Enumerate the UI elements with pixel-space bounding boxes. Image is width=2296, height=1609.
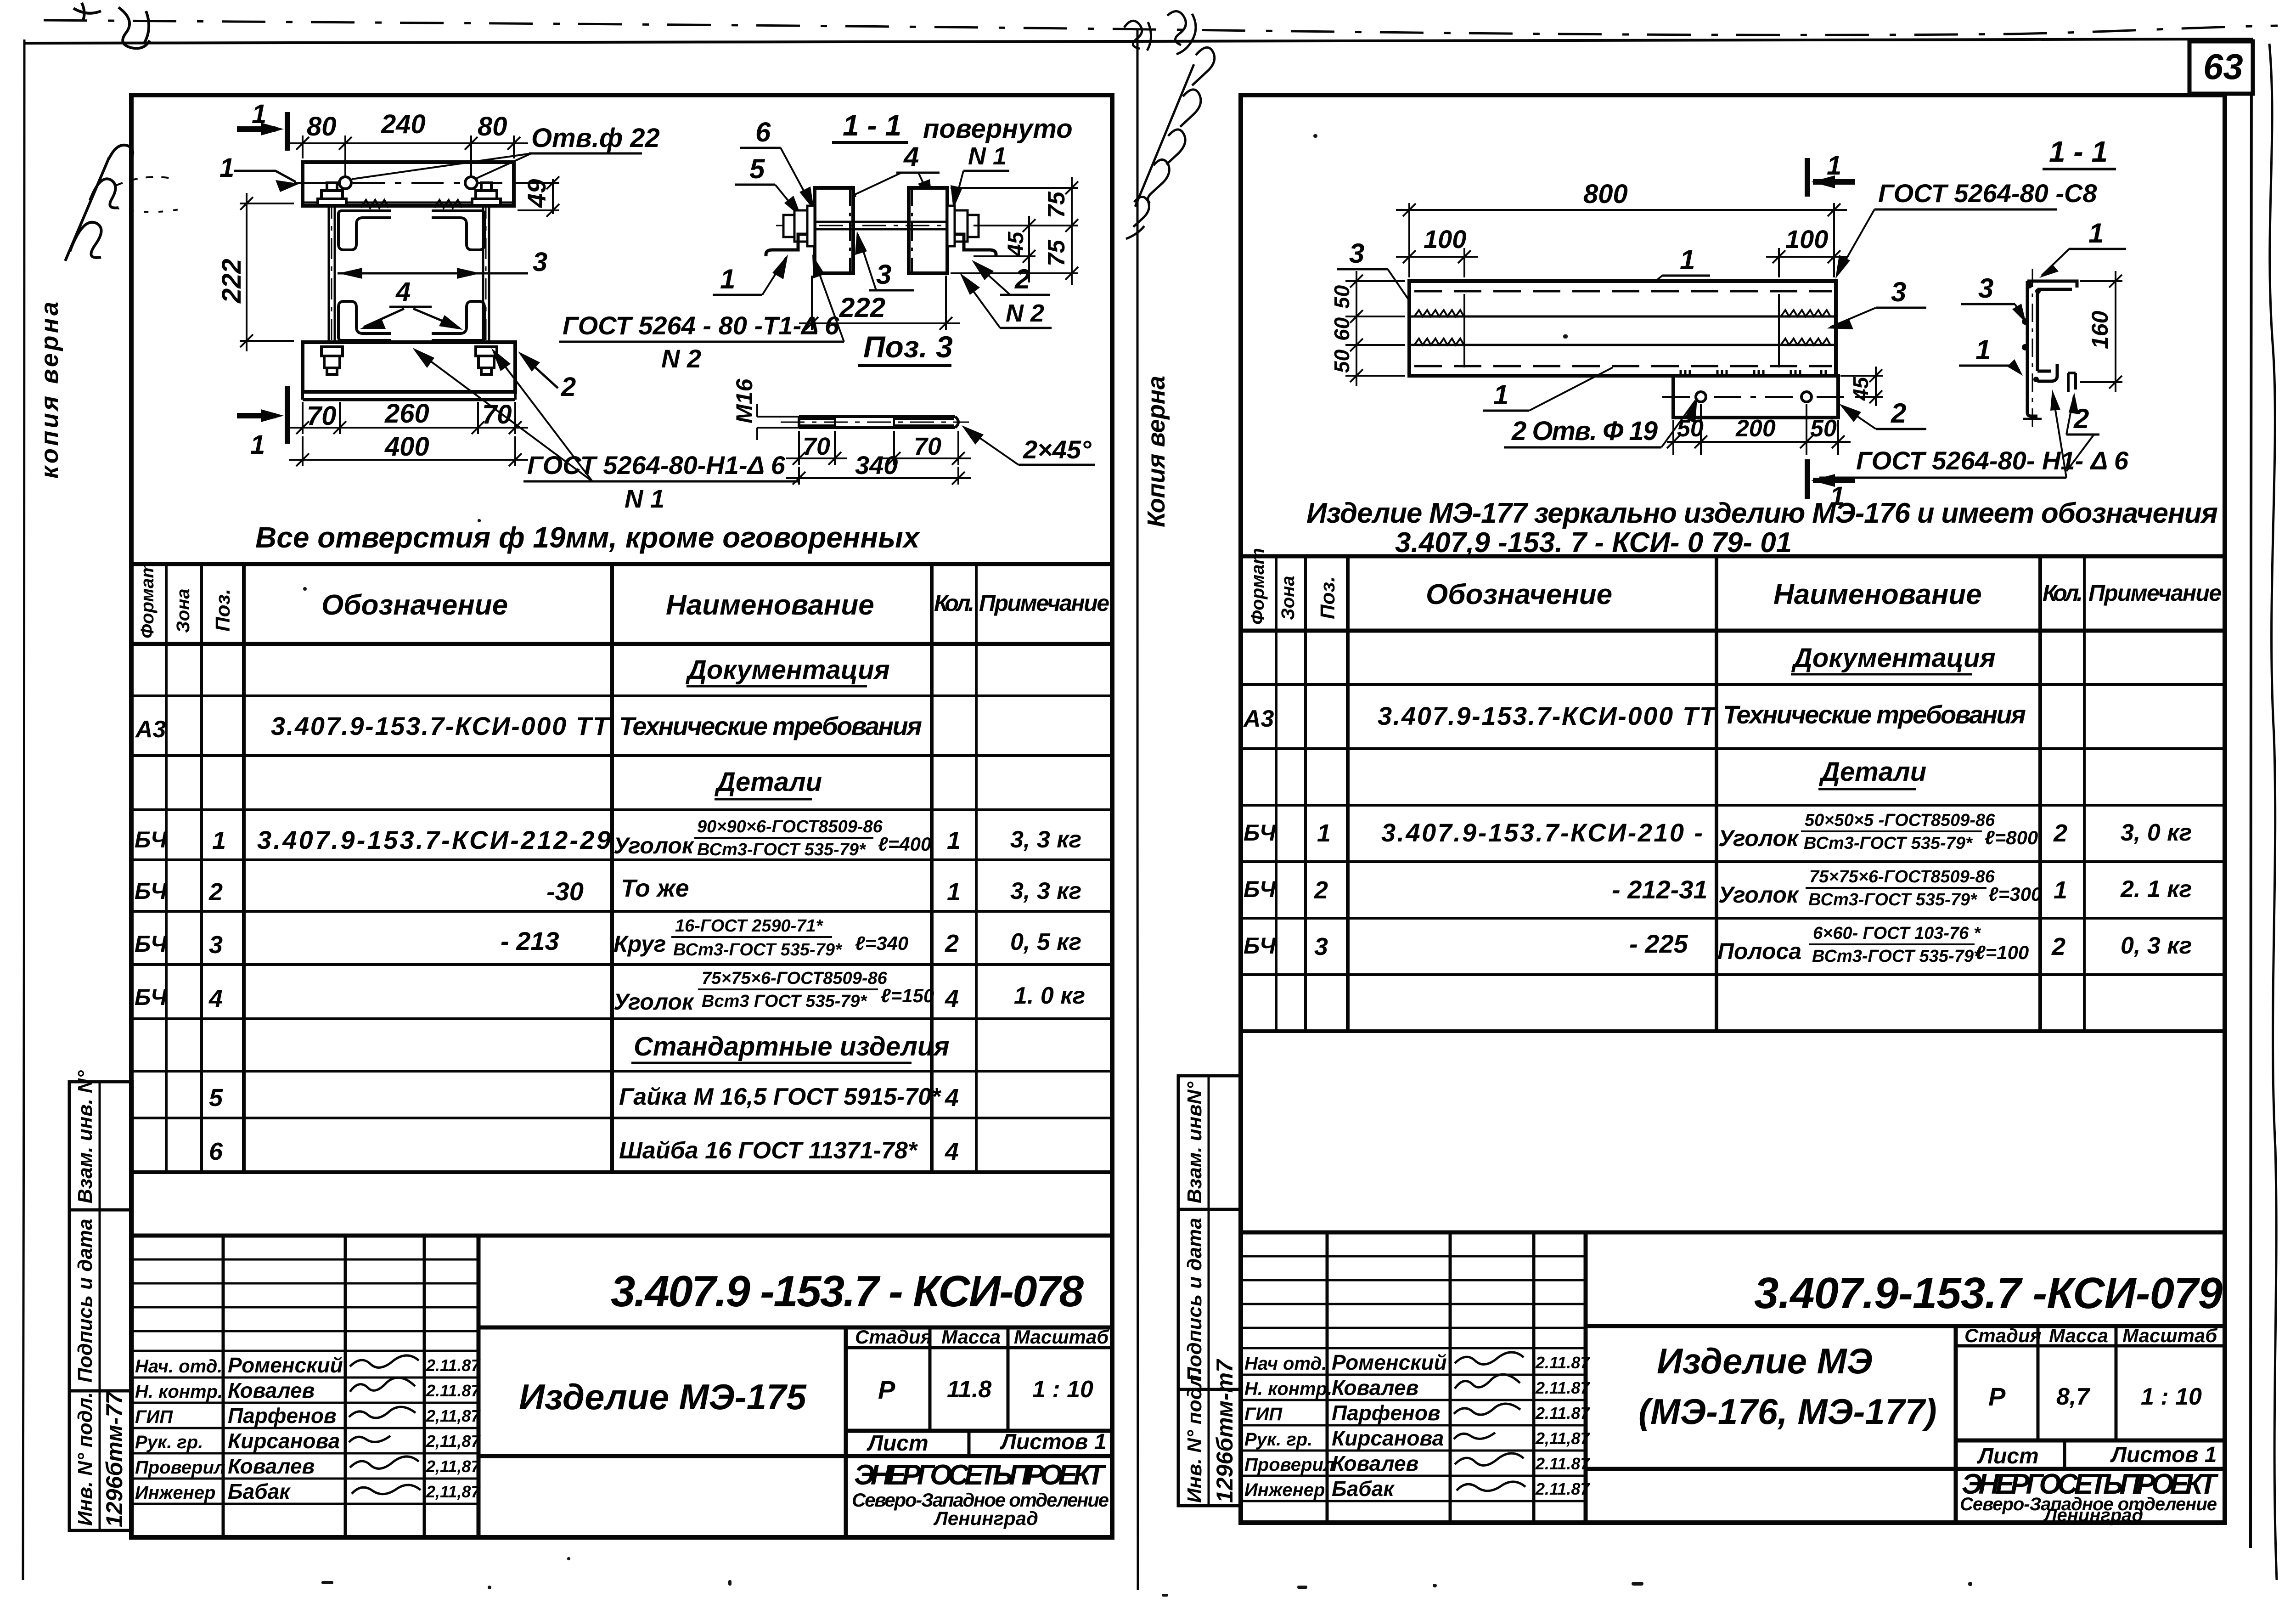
stud axes: [331, 198, 332, 354]
weld zone right: [1779, 294, 1830, 367]
svg-text:3: 3: [1978, 273, 1993, 304]
svg-text:ЭНЕРГОСЕТЬПРОЕКТ: ЭНЕРГОСЕТЬПРОЕКТ: [854, 1459, 1107, 1491]
svg-text:2 Отв. Ф 19: 2 Отв. Ф 19: [1511, 416, 1658, 446]
svg-text:ℓ=100: ℓ=100: [1975, 942, 2029, 963]
lower plate pos.2: [1673, 376, 1838, 418]
signature grid: [222, 1236, 225, 1537]
dim 100 left: [1396, 248, 1478, 277]
svg-text:800: 800: [1583, 179, 1628, 209]
svg-text:Проверил: Проверил: [135, 1457, 225, 1478]
svg-text:ℓ=800: ℓ=800: [1985, 827, 2038, 848]
svg-text:БЧ: БЧ: [135, 878, 168, 904]
svg-text:Изделие МЭ-177 зеркально изд: Изделие МЭ-177 зеркально изделию МЭ-176 …: [1306, 497, 2218, 529]
svg-text:ГОСТ 5264-80 -С8: ГОСТ 5264-80 -С8: [1878, 179, 2097, 208]
svg-text:3.407.9-153.7-КСИ-210 -: 3.407.9-153.7-КСИ-210 -: [1381, 818, 1703, 847]
right margin box Inv.N podl: [1178, 1389, 1241, 1506]
svg-text:3: 3: [533, 247, 547, 277]
svg-text:1296бтм-77: 1296бтм-77: [101, 1391, 127, 1527]
dim 160: [2080, 271, 2122, 392]
svg-text:2,11,87: 2,11,87: [1535, 1429, 1590, 1448]
left margin box Podpis i data: [69, 1210, 132, 1391]
main bar pos.1: [1409, 281, 1836, 376]
svg-text:Масштаб: Масштаб: [2122, 1325, 2217, 1346]
svg-text:Уголок: Уголок: [613, 989, 695, 1015]
svg-text:Ковалев: Ковалев: [228, 1378, 315, 1402]
left signatures column texts: [135, 1353, 481, 1503]
svg-text:3, 0 кг: 3, 0 кг: [2121, 819, 2192, 846]
svg-text:3: 3: [876, 259, 891, 290]
svg-text:100: 100: [1785, 225, 1828, 254]
svg-text:0, 5 кг: 0, 5 кг: [1010, 929, 1081, 955]
svg-text:Масса: Масса: [941, 1326, 1001, 1348]
svg-text:ℓ=150: ℓ=150: [881, 985, 934, 1006]
section marker 1 bottom-left: [237, 386, 287, 444]
right margin box Vzam.inv: [1178, 1076, 1241, 1209]
svg-text:8,7: 8,7: [2056, 1383, 2090, 1410]
svg-text:Изделие МЭ-175: Изделие МЭ-175: [519, 1377, 807, 1417]
svg-text:- 225: - 225: [1629, 929, 1688, 958]
svg-text:Инженер: Инженер: [1244, 1480, 1325, 1500]
left margin box Vzam.inv: [69, 1082, 132, 1210]
svg-text:Примечание: Примечание: [979, 590, 1109, 616]
svg-text:N 1: N 1: [968, 142, 1007, 170]
svg-text:3.407.9-153.7-КСИ-212-29: 3.407.9-153.7-КСИ-212-29: [257, 825, 611, 854]
svg-text:2: 2: [2053, 819, 2067, 847]
svg-text:ГИП: ГИП: [1244, 1404, 1283, 1424]
svg-text:4: 4: [945, 1084, 959, 1112]
dim 70 right: [882, 431, 971, 465]
left table rows: [135, 655, 1085, 1165]
lower plate axis: [1662, 396, 1851, 398]
svg-text:N 2: N 2: [1006, 299, 1044, 327]
svg-text:М16: М16: [732, 378, 757, 423]
svg-text:ВСт3-ГОСТ 535-79*: ВСт3-ГОСТ 535-79*: [1804, 834, 1973, 853]
svg-text:Рук. гр.: Рук. гр.: [1244, 1429, 1312, 1450]
dims 50 60 50 left: [1345, 271, 1405, 386]
sheet number box 63: [2189, 41, 2253, 94]
svg-text:-30: -30: [546, 877, 584, 906]
svg-text:копия верна: копия верна: [36, 302, 63, 479]
bar dashed edge bottom: [1414, 365, 1832, 367]
svg-text:3: 3: [1891, 277, 1906, 307]
dim 340: [786, 467, 971, 485]
svg-text:ВСт3-ГОСТ 535-79*: ВСт3-ГОСТ 535-79*: [1812, 947, 1981, 966]
hole right: [465, 177, 477, 189]
svg-text:75: 75: [1043, 239, 1070, 266]
scan top dash-dot edge line: [44, 20, 2278, 35]
svg-text:1: 1: [219, 153, 234, 183]
svg-text:Ковалев: Ковалев: [1332, 1451, 1418, 1475]
plate axis line: [294, 182, 523, 184]
bolt axis: [781, 422, 969, 423]
svg-text:Бабак: Бабак: [228, 1479, 291, 1503]
dim 800: [1396, 203, 1847, 277]
bar dashed edge top: [1414, 290, 1832, 293]
svg-text:БЧ: БЧ: [1244, 876, 1277, 902]
svg-text:Роменский: Роменский: [228, 1353, 343, 1377]
svg-text:Вст3 ГОСТ 535-79*: Вст3 ГОСТ 535-79*: [702, 992, 868, 1011]
svg-text:Копия верна: Копия верна: [1142, 376, 1170, 527]
svg-text:Наименование: Наименование: [666, 589, 874, 621]
svg-text:Нач. отд.: Нач. отд.: [135, 1356, 222, 1377]
right block pos.4: [909, 188, 947, 273]
svg-text:ГОСТ 5264 - 80 -Т1-Δ 6: ГОСТ 5264 - 80 -Т1-Δ 6: [563, 311, 839, 340]
svg-text:160: 160: [2087, 311, 2113, 349]
left signature squiggles: [349, 1355, 421, 1494]
svg-text:2.11.87: 2.11.87: [1535, 1378, 1590, 1397]
dim 222 side: [799, 276, 960, 330]
svg-text:1: 1: [947, 827, 961, 854]
svg-text:Поз.: Поз.: [212, 589, 234, 632]
svg-text:1: 1: [1317, 819, 1331, 847]
svg-text:1: 1: [1827, 151, 1841, 181]
dim 222 left: [240, 193, 294, 351]
svg-text:Рук. гр.: Рук. гр.: [135, 1432, 203, 1452]
channel web and flanges: [2027, 281, 2077, 416]
left table header texts: [137, 562, 1109, 638]
svg-text:6: 6: [755, 117, 771, 147]
right table header texts: [1248, 548, 2222, 625]
svg-text:Гайка М 16,5 ГОСТ 5915-70*: Гайка М 16,5 ГОСТ 5915-70*: [619, 1084, 942, 1110]
section marker 1 top-left: [237, 112, 287, 151]
svg-text:ℓ=300: ℓ=300: [1988, 883, 2042, 905]
svg-text:Уголок: Уголок: [1718, 882, 1800, 908]
svg-text:2×45°: 2×45°: [1023, 435, 1092, 464]
svg-text:Инв. N° подл.: Инв. N° подл.: [74, 1392, 96, 1526]
right margin box Podpis i data: [1178, 1209, 1241, 1389]
svg-text:11.8: 11.8: [947, 1376, 991, 1403]
svg-text:2: 2: [561, 372, 576, 402]
svg-text:ГОСТ 5264-80-Н1-Δ 6: ГОСТ 5264-80-Н1-Δ 6: [527, 451, 786, 480]
svg-text:Примечание: Примечание: [2088, 580, 2222, 606]
svg-text:Детали: Детали: [714, 767, 822, 797]
right title block texts: [1638, 1269, 2223, 1525]
svg-text:70: 70: [307, 401, 337, 431]
left margin divider: [99, 1082, 101, 1530]
svg-text:2: 2: [1014, 264, 1030, 294]
svg-text:А3: А3: [135, 716, 166, 743]
svg-text:2: 2: [208, 878, 223, 906]
svg-text:(МЭ-176, МЭ-177): (МЭ-176, МЭ-177): [1638, 1391, 1937, 1432]
svg-text:БЧ: БЧ: [1244, 933, 1277, 959]
svg-text:222: 222: [217, 259, 247, 304]
svg-text:200: 200: [1735, 415, 1776, 442]
svg-text:80: 80: [307, 112, 337, 141]
svg-text:240: 240: [381, 109, 426, 139]
svg-text:70: 70: [803, 433, 830, 460]
plate hole right: [1801, 392, 1812, 402]
svg-text:3.407,9 -153. 7 - КСИ- 0 79-: 3.407,9 -153. 7 - КСИ- 0 79- 01: [1395, 527, 1792, 559]
svg-text:повернуто: повернуто: [923, 114, 1073, 144]
svg-text:Н. контр.: Н. контр.: [135, 1382, 223, 1402]
svg-text:ГИП: ГИП: [135, 1407, 173, 1427]
svg-text:2.11.87: 2.11.87: [1535, 1479, 1590, 1498]
dim 49: [518, 176, 559, 217]
svg-text:222: 222: [839, 292, 885, 323]
bar interior line lower: [1409, 344, 1836, 346]
svg-text:Ковалев: Ковалев: [228, 1454, 315, 1478]
svg-text:Документация: Документация: [1791, 643, 1996, 673]
weld tick marks top: [361, 200, 462, 208]
svg-text:4: 4: [945, 1138, 959, 1165]
LEFT TITLE BLOCK: [131, 1236, 1112, 1537]
left margin box Inv.N podl: [69, 1391, 132, 1530]
svg-text:Кирсанова: Кирсанова: [1332, 1426, 1444, 1450]
channel weld dots: [2022, 282, 2041, 382]
top nuts on plate: [318, 183, 501, 205]
dim 400: [289, 436, 528, 466]
dim 70 260 70: [289, 402, 528, 434]
dim 70 left: [786, 431, 847, 465]
bottom plate nuts: [321, 347, 497, 374]
svg-text:60: 60: [1330, 317, 1354, 341]
svg-text:3.407.9 -153.7 - КСИ-078: 3.407.9 -153.7 - КСИ-078: [611, 1267, 1084, 1316]
weld zone left: [1414, 294, 1464, 367]
svg-text:1 - 1: 1 - 1: [843, 109, 901, 142]
svg-text:Подпись и дата: Подпись и дата: [1183, 1218, 1206, 1382]
svg-text:1: 1: [947, 878, 961, 906]
svg-text:6×60- ГОСТ 103-76 *: 6×60- ГОСТ 103-76 *: [1813, 924, 1981, 943]
svg-text:Уголок: Уголок: [1718, 825, 1800, 851]
svg-text:260: 260: [384, 399, 429, 429]
svg-text:N 2: N 2: [661, 344, 701, 373]
right margin divider: [1208, 1076, 1210, 1506]
svg-text:N 1: N 1: [625, 484, 664, 513]
svg-text:2. 1 кг: 2. 1 кг: [2120, 876, 2192, 903]
svg-text:БЧ: БЧ: [135, 931, 168, 957]
svg-text:Ковалев: Ковалев: [1332, 1376, 1418, 1400]
svg-text:Листов 1: Листов 1: [1000, 1430, 1106, 1454]
upper angle brackets pos.4: [338, 211, 484, 250]
left block pos.4: [815, 188, 853, 273]
scan right wavy tear edge: [2269, 44, 2277, 1580]
svg-text:Роменский: Роменский: [1332, 1350, 1447, 1374]
dim 80 240 80: [289, 135, 528, 178]
svg-text:2.11.87: 2.11.87: [1535, 1454, 1590, 1473]
svg-text:50: 50: [1677, 415, 1704, 442]
scan left page edge: [23, 40, 24, 1580]
svg-text:75: 75: [1043, 191, 1070, 218]
svg-text:Инженер: Инженер: [135, 1483, 215, 1503]
svg-text:5: 5: [209, 1084, 223, 1112]
svg-text:Кирсанова: Кирсанова: [228, 1429, 340, 1453]
left sheet top-left handwriting: [65, 3, 184, 261]
svg-text:Наименование: Наименование: [1773, 579, 1982, 610]
svg-text:- 212-31: - 212-31: [1612, 875, 1708, 904]
left title block texts: [519, 1267, 1109, 1529]
dim 100 right: [1766, 248, 1847, 277]
svg-text:Парфенов: Парфенов: [228, 1404, 337, 1428]
svg-text:Лист: Лист: [1977, 1444, 2039, 1468]
svg-text:5: 5: [749, 153, 765, 184]
svg-text:Полоса: Полоса: [1717, 938, 1801, 964]
svg-text:2,11,87: 2,11,87: [426, 1406, 481, 1425]
svg-text:ВСт3-ГОСТ 535-79*: ВСт3-ГОСТ 535-79*: [697, 840, 867, 859]
svg-text:ГОСТ 5264-80- Н1- Δ 6: ГОСТ 5264-80- Н1- Δ 6: [1856, 446, 2129, 475]
svg-text:Лист: Лист: [867, 1431, 929, 1456]
svg-text:1: 1: [1975, 334, 1991, 365]
right signature squiggles: [1454, 1352, 1525, 1491]
svg-text:3.407.9-153.7-КСИ-000 ТТ: 3.407.9-153.7-КСИ-000 ТТ: [271, 711, 611, 740]
svg-text:То же: То же: [621, 875, 689, 902]
svg-text:1: 1: [212, 827, 226, 854]
svg-text:1 : 10: 1 : 10: [1032, 1376, 1093, 1403]
svg-text:Обозначение: Обозначение: [321, 589, 508, 621]
svg-text:Проверил: Проверил: [1244, 1455, 1335, 1475]
plate 2 section stub: [2068, 373, 2076, 392]
svg-text:Уголок: Уголок: [613, 833, 695, 858]
weld marks above lower plate: [1681, 370, 1826, 378]
lower angle brackets pos.4: [338, 301, 484, 340]
svg-text:Взам. инв. N°: Взам. инв. N°: [74, 1070, 96, 1203]
top plate pos.1 front view: [303, 162, 514, 206]
svg-text:А3: А3: [1243, 706, 1274, 732]
svg-text:4: 4: [395, 277, 411, 307]
svg-text:1: 1: [252, 99, 266, 129]
dim 45 right: [1840, 367, 1883, 406]
svg-text:50: 50: [1330, 349, 1354, 373]
svg-text:Масса: Масса: [2049, 1325, 2108, 1346]
hole left: [339, 177, 351, 189]
svg-text:2: 2: [945, 930, 959, 957]
svg-text:Технические требования: Технические требования: [619, 711, 922, 740]
svg-text:100: 100: [1424, 225, 1466, 254]
section marker 1 bottom right sheet: [1807, 459, 1855, 499]
svg-text:63: 63: [2203, 46, 2243, 87]
svg-text:Кол.: Кол.: [934, 590, 974, 616]
svg-text:Изделие МЭ: Изделие МЭ: [1657, 1341, 1873, 1381]
scan specks bottom: [303, 134, 1972, 1597]
svg-text:1 - 1: 1 - 1: [2049, 135, 2108, 168]
svg-text:45: 45: [1849, 376, 1873, 401]
svg-text:3: 3: [209, 931, 223, 959]
svg-text:3.407.9-153.7 -КСИ-079: 3.407.9-153.7 -КСИ-079: [1754, 1269, 2223, 1318]
right signature grid: [1326, 1232, 1329, 1523]
angle pos.2 side: [955, 234, 996, 256]
scan right page edge: [2251, 40, 2251, 1548]
svg-text:ℓ=400: ℓ=400: [878, 833, 931, 855]
right signatures column texts: [1244, 1350, 1590, 1501]
svg-text:БЧ: БЧ: [135, 827, 168, 852]
svg-text:- 213: - 213: [501, 926, 559, 955]
right sheet top handwriting: [1124, 11, 1215, 239]
svg-text:90×90×6-ГОСТ8509-86: 90×90×6-ГОСТ8509-86: [697, 817, 883, 836]
bolt rod: [799, 417, 958, 428]
svg-text:Формат: Формат: [137, 562, 158, 638]
svg-text:Поз.: Поз.: [1317, 576, 1339, 619]
svg-text:80: 80: [478, 112, 507, 141]
svg-text:Обозначение: Обозначение: [1426, 579, 1612, 610]
svg-text:340: 340: [855, 451, 898, 480]
svg-text:70: 70: [914, 433, 941, 460]
weld tick marks bottom: [361, 344, 462, 351]
svg-text:75×75×6-ГОСТ8509-86: 75×75×6-ГОСТ8509-86: [702, 969, 888, 988]
svg-text:ВСт3-ГОСТ 535-79*: ВСт3-ГОСТ 535-79*: [1808, 890, 1978, 909]
svg-text:4: 4: [903, 141, 919, 172]
angle pos.1 side: [766, 234, 807, 256]
svg-text:2,11,87: 2,11,87: [426, 1482, 481, 1501]
scan middle page edge: [1137, 28, 1138, 1590]
svg-text:3: 3: [1314, 933, 1328, 960]
svg-text:1: 1: [1680, 244, 1695, 275]
svg-text:Взам. инвN°: Взам. инвN°: [1183, 1082, 1206, 1204]
left hardware nut washer: [783, 206, 815, 246]
svg-text:70: 70: [482, 400, 512, 429]
svg-text:Подпись и дата: Подпись и дата: [74, 1219, 96, 1383]
svg-text:3: 3: [1349, 238, 1364, 269]
svg-text:БЧ: БЧ: [135, 984, 168, 1010]
svg-text:Масштаб: Масштаб: [1014, 1326, 1109, 1348]
svg-text:3, 3 кг: 3, 3 кг: [1010, 826, 1081, 853]
section marker 1 top right sheet: [1807, 158, 1855, 197]
svg-text:1: 1: [250, 430, 265, 460]
channel axis: [2032, 269, 2033, 427]
svg-text:2: 2: [1891, 398, 1906, 429]
left sheet frame: [131, 95, 1112, 1537]
dims 75 75 45 right: [951, 177, 1078, 285]
right sheet frame: [1241, 95, 2225, 1523]
bar interior line upper: [1409, 316, 1836, 318]
svg-text:Детали: Детали: [1818, 757, 1926, 787]
svg-text:Шайба 16 ГОСТ 11371-78*: Шайба 16 ГОСТ 11371-78*: [619, 1137, 918, 1164]
svg-text:2.11.87: 2.11.87: [1535, 1404, 1590, 1423]
svg-text:Круг: Круг: [613, 931, 666, 957]
svg-text:Кол.: Кол.: [2043, 580, 2083, 606]
svg-text:50: 50: [1330, 285, 1354, 309]
svg-text:50: 50: [1810, 415, 1837, 442]
svg-text:4: 4: [945, 985, 959, 1012]
svg-text:2.11.87: 2.11.87: [1535, 1353, 1590, 1372]
svg-text:16-ГОСТ 2590-71*: 16-ГОСТ 2590-71*: [675, 916, 824, 936]
svg-text:2: 2: [2051, 933, 2065, 960]
svg-text:4: 4: [208, 985, 223, 1012]
svg-text:1296бтм-т7: 1296бтм-т7: [1212, 1359, 1238, 1503]
svg-text:50×50×5 -ГОСТ8509-86: 50×50×5 -ГОСТ8509-86: [1805, 811, 1995, 830]
svg-text:1: 1: [1493, 379, 1508, 410]
svg-text:Стандартные изделия: Стандартные изделия: [634, 1032, 950, 1061]
right spec table grid: [1241, 556, 2225, 1031]
plate hole left: [1696, 392, 1706, 402]
svg-text:Нач отд.: Нач отд.: [1244, 1354, 1327, 1374]
svg-text:400: 400: [384, 432, 429, 462]
svg-text:Парфенов: Парфенов: [1332, 1401, 1441, 1425]
svg-text:Н. контр.: Н. контр.: [1244, 1379, 1332, 1399]
svg-text:Поз. 3: Поз. 3: [863, 330, 953, 364]
right stud pos.3: [483, 206, 489, 344]
svg-text:Отв.ф 22: Отв.ф 22: [531, 123, 660, 153]
svg-text:Зона: Зона: [1278, 576, 1298, 620]
svg-text:2,11,87: 2,11,87: [426, 1457, 481, 1476]
right hardware nut washer: [947, 206, 979, 246]
svg-text:Бабак: Бабак: [1332, 1477, 1395, 1501]
svg-text:Ленинград: Ленинград: [2043, 1505, 2143, 1525]
svg-text:Формат: Формат: [1248, 548, 1268, 625]
svg-text:Инв. N° подл.: Инв. N° подл.: [1183, 1369, 1206, 1503]
bottom plate pos.2 front view: [303, 342, 515, 392]
svg-text:Стадия: Стадия: [1964, 1325, 2041, 1346]
svg-text:Ленинград: Ленинград: [933, 1507, 1038, 1529]
svg-text:45: 45: [1004, 231, 1028, 257]
svg-text:3.407.9-153.7-КСИ-000 ТТ: 3.407.9-153.7-КСИ-000 ТТ: [1378, 701, 1717, 730]
svg-text:75×75×6-ГОСТ8509-86: 75×75×6-ГОСТ8509-86: [1809, 867, 1995, 886]
svg-text:ВСт3-ГОСТ 535-79*: ВСт3-ГОСТ 535-79*: [673, 940, 843, 960]
svg-text:Документация: Документация: [685, 655, 890, 685]
bolt shaft pos.3: [790, 222, 970, 229]
svg-text:2.11.87: 2.11.87: [426, 1356, 481, 1375]
svg-text:1: 1: [2054, 876, 2067, 904]
svg-text:0, 3 кг: 0, 3 кг: [2121, 932, 2192, 959]
scan top solid edge line: [25, 39, 2253, 43]
